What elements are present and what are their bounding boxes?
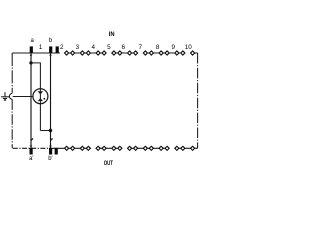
wire: bottom bank chain contacts 9-10 to right boundary	[175, 147, 198, 149]
earth ground symbol	[4, 92, 6, 96]
rotor wiper arrow down	[38, 91, 44, 94]
bottom bank contact pair 7	[143, 146, 147, 150]
svg-text:10: 10	[185, 44, 193, 51]
home contact bar a' (bottom)	[30, 148, 33, 155]
home contact bar 1 (top, unlabeled)	[56, 46, 59, 52]
top bank contact pair 5	[112, 51, 116, 55]
wire: top contact 10 to right boundary corner	[190, 52, 197, 54]
wire: top row base from left boundary to home contacts	[12, 52, 60, 54]
svg-text:8: 8	[156, 44, 160, 51]
svg-text:9: 9	[171, 44, 175, 51]
wiper b vertical wire	[50, 53, 52, 148]
wire: bottom bank chain contacts 6-8	[127, 147, 169, 149]
bottom bank contact pair 6	[128, 146, 132, 150]
wire: top bank chain contacts 7-9	[143, 52, 185, 54]
rotor wiper arrow up	[38, 98, 43, 101]
brush tick on wiper a'	[31, 138, 33, 141]
wire: bottom dash-dot from left boundary to wiper b'	[13, 147, 49, 149]
brush tick on wiper b'	[50, 138, 52, 141]
bottom bank contact 10	[191, 146, 195, 150]
top bank contact pair 7	[143, 51, 147, 55]
junction node on wiper b	[49, 129, 52, 132]
bottom bank contact pair 5	[112, 146, 116, 150]
rotor (wiper assembly) circle	[33, 89, 48, 104]
bottom bank contact pair 9	[175, 146, 179, 150]
mechanical linkage dash-dot line (right)	[197, 53, 199, 148]
rotor index dot	[43, 98, 45, 100]
wire: bottom bank chain contacts 4-5	[96, 147, 122, 149]
top bank contact pair 4	[96, 51, 100, 55]
home contact bar b' (bottom)	[49, 148, 52, 155]
wiper a vertical wire	[30, 53, 32, 148]
home contact bar 1' (bottom, unlabeled)	[55, 148, 58, 155]
wire: rotor bottom to wiper b junction	[40, 130, 50, 132]
top bank contact pair 9	[175, 51, 179, 55]
svg-text:3: 3	[76, 44, 80, 51]
top bank contact pair 3	[80, 51, 84, 55]
home contact bar b (top)	[49, 46, 52, 52]
bottom bank contact pair 4	[96, 146, 100, 150]
rotor shaft wire through circle	[39, 89, 41, 131]
svg-text:1: 1	[39, 44, 43, 51]
wiper b arrow tips	[49, 53, 52, 55]
svg-text:5: 5	[107, 44, 111, 51]
mechanical linkage dash-dot line (left)	[11, 53, 13, 93]
wire: bottom row solid base + chain contacts 2-3	[49, 147, 90, 149]
crossover hop over ground wire	[9, 94, 12, 100]
svg-text:7: 7	[138, 44, 142, 51]
top bank contact pair 8	[159, 51, 163, 55]
svg-text:6: 6	[122, 44, 126, 51]
svg-text:IN: IN	[109, 31, 115, 38]
top bank contact 10	[191, 51, 195, 55]
wire: junction to rotor shaft	[31, 63, 40, 89]
svg-text:2: 2	[60, 44, 64, 51]
wire: top bank chain contacts 2-4	[65, 52, 107, 54]
svg-text:OUT: OUT	[104, 160, 113, 167]
bottom bank contact pair 3	[80, 146, 84, 150]
home contact bar a (top)	[30, 46, 33, 52]
bottom bank contact pair 8	[159, 146, 163, 150]
wiper a arrow tips	[30, 53, 33, 55]
wire: top bank chain contacts 5-6	[112, 52, 138, 54]
svg-text:4: 4	[92, 44, 96, 51]
junction node on wiper a	[29, 61, 32, 64]
bottom bank contact pair 2	[65, 146, 69, 150]
wire: ground to rotor	[8, 96, 11, 98]
top bank contact pair 2	[65, 51, 69, 55]
top bank contact pair 6	[128, 51, 132, 55]
